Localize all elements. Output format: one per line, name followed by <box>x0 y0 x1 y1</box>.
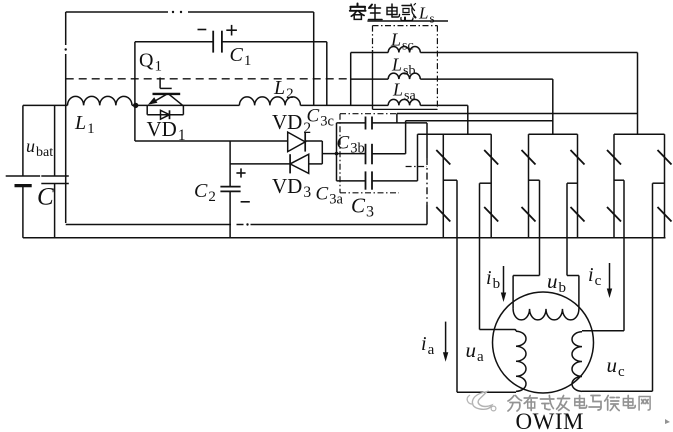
svg-text:C: C <box>37 184 54 211</box>
svg-text:OWIM: OWIM <box>516 409 584 432</box>
